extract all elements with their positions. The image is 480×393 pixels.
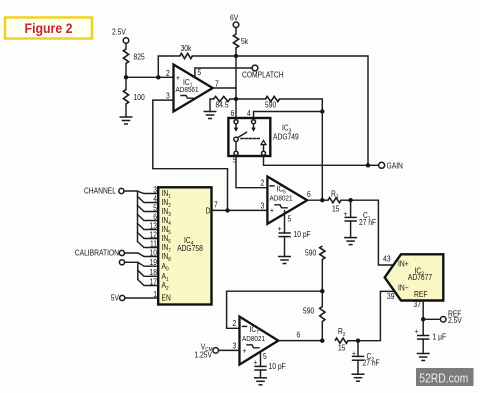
wire top rail to gain column xyxy=(236,56,368,165)
pin 5 latch stub to COMPLATCH xyxy=(195,68,252,77)
REF 2.5V terminal xyxy=(423,309,462,325)
wire R1 node to ADC IN+ xyxy=(351,200,394,265)
resistor 84.5 xyxy=(214,96,231,109)
svg-text:COMPLATCH: COMPLATCH xyxy=(242,70,284,80)
svg-text:30k: 30k xyxy=(181,43,192,53)
ground under C1 xyxy=(344,238,357,245)
COMPLATCH terminal xyxy=(242,65,284,80)
capacitor 1 uF xyxy=(414,319,446,353)
svg-text:+: + xyxy=(270,205,274,215)
wire R2 node to ADC IN- xyxy=(358,291,394,340)
svg-text:825: 825 xyxy=(134,52,145,62)
watermark xyxy=(416,368,474,386)
wire feedback to IC7 pin 2 xyxy=(227,291,323,328)
svg-text:5k: 5k xyxy=(241,36,248,46)
svg-text:3: 3 xyxy=(261,201,265,211)
wire D node to IC6 pin 3 xyxy=(228,209,268,211)
supply 2.5V terminal xyxy=(112,27,129,43)
svg-text:R2: R2 xyxy=(338,326,346,338)
svg-text:1 µF: 1 µF xyxy=(432,332,446,342)
resistor 30k xyxy=(180,43,193,58)
svg-text:1: 1 xyxy=(153,289,157,299)
svg-text:REF: REF xyxy=(414,290,428,300)
resistor 825 xyxy=(123,49,144,64)
svg-text:2.5V: 2.5V xyxy=(112,27,126,37)
wire 5V to EN xyxy=(125,297,158,299)
svg-text:+: + xyxy=(278,224,282,234)
svg-text:15: 15 xyxy=(332,204,339,214)
wire pull-up node down comparator output column xyxy=(235,56,237,99)
svg-text:5: 5 xyxy=(263,352,267,362)
svg-text:2: 2 xyxy=(233,319,237,329)
svg-text:17: 17 xyxy=(150,277,157,287)
svg-text:19: 19 xyxy=(150,257,157,267)
wire REF pin down xyxy=(422,301,424,320)
wire IC6 output xyxy=(307,199,322,201)
svg-text:IN−: IN− xyxy=(398,283,409,293)
svg-text:10 pF: 10 pF xyxy=(268,362,286,372)
node D junction xyxy=(225,208,229,212)
svg-text:AD8561: AD8561 xyxy=(176,86,199,94)
adc IC2 AD7677 xyxy=(385,254,444,300)
node pull-up junction xyxy=(234,54,238,58)
wire address fan to A0 A1 A2 xyxy=(125,262,159,285)
svg-text:5: 5 xyxy=(287,214,291,224)
ground under 84.5 xyxy=(204,112,217,119)
ground under IC6 10 pF xyxy=(278,257,291,264)
svg-text:+: + xyxy=(176,73,180,83)
svg-text:3: 3 xyxy=(233,341,237,351)
wire cap to ground xyxy=(284,237,286,257)
wire node up to 30k xyxy=(158,56,180,77)
GAIN terminal xyxy=(368,161,403,171)
node attenuator junction xyxy=(234,97,238,101)
svg-text:AD8021: AD8021 xyxy=(242,336,265,344)
resistor 590 middle xyxy=(305,246,325,260)
svg-text:2.5V: 2.5V xyxy=(448,315,462,325)
wire cap to ground xyxy=(260,370,262,378)
wire attenuator node down to switch pin 6 xyxy=(235,99,237,120)
svg-text:27 nF: 27 nF xyxy=(363,358,381,368)
wire node to R100 xyxy=(125,77,127,89)
wire junction to switch pin 4 xyxy=(254,112,323,120)
wire R100 to ground xyxy=(125,104,127,117)
svg-text:7: 7 xyxy=(215,79,219,89)
wire attenuator node to 84.5 xyxy=(230,98,236,100)
wire switch control pin to gain line xyxy=(264,155,369,165)
svg-text:43: 43 xyxy=(383,254,390,264)
wire IC6 pin 5 to cap xyxy=(284,211,286,233)
svg-text:D: D xyxy=(205,206,210,216)
svg-text:6: 6 xyxy=(230,108,234,118)
pin number labels left of IC4 xyxy=(150,185,157,299)
wire divider node to comparator pin 2 xyxy=(126,76,174,78)
wire D output to node xyxy=(212,209,228,211)
resistor R2 15 xyxy=(335,326,358,352)
wire 590 to switch column xyxy=(280,99,323,112)
svg-text:ADG758: ADG758 xyxy=(177,243,203,253)
CHANNEL terminal xyxy=(84,186,124,196)
resistor R1 15 xyxy=(322,189,350,214)
wire CALIBRATION to IN8 xyxy=(125,253,159,257)
svg-text:27 nF: 27 nF xyxy=(359,217,377,227)
mux IC4 ADG758 xyxy=(158,187,211,304)
svg-text:EN: EN xyxy=(161,293,170,303)
resistor 590 top xyxy=(265,96,279,109)
figure label box xyxy=(5,18,92,39)
op-amp IC1 AD8561 comparator xyxy=(174,65,213,112)
VCM terminal xyxy=(194,342,218,360)
ground under 1 uF xyxy=(417,354,430,361)
svg-text:52RD.com: 52RD.com xyxy=(419,371,468,385)
svg-text:39: 39 xyxy=(387,292,394,302)
wire comparator pin 3 feedback path xyxy=(153,100,228,210)
wire CHANNEL fan to IN pins xyxy=(124,191,158,248)
capacitor C2 27 nF xyxy=(352,341,380,375)
node feedback tap xyxy=(156,75,160,79)
svg-text:6: 6 xyxy=(297,330,301,340)
svg-text:100: 100 xyxy=(134,92,145,102)
wire attenuator node to 590 xyxy=(236,98,266,100)
resistor 590 bottom xyxy=(303,291,325,341)
svg-text:4: 4 xyxy=(247,108,251,118)
wire VCM to IC7 pin 3 xyxy=(219,349,240,351)
svg-text:CHANNEL: CHANNEL xyxy=(84,186,116,196)
node R2 output junction xyxy=(356,339,360,343)
svg-text:3: 3 xyxy=(166,91,170,101)
wire 30k to pull-up node xyxy=(192,55,236,57)
wire R825 to node xyxy=(125,64,127,78)
node gain junction xyxy=(366,163,370,167)
node IC7 output junction xyxy=(320,339,324,343)
wire switch junction down to IC6 output node xyxy=(321,112,323,201)
wire IC7 output xyxy=(278,340,322,342)
supply 5V terminal xyxy=(111,293,125,303)
svg-text:+: + xyxy=(414,326,418,336)
wire 84.5 to ground xyxy=(210,99,214,112)
op-amp IC7 AD8021 xyxy=(240,317,279,365)
svg-text:7: 7 xyxy=(214,200,218,210)
wire 6V to 5k xyxy=(235,28,237,34)
svg-text:6V: 6V xyxy=(230,13,238,23)
ground under R100 xyxy=(120,117,133,124)
op-amp IC6 AD8021 xyxy=(267,177,307,224)
pin 7 output wire xyxy=(213,87,236,89)
wire 5k to pull-up node xyxy=(235,48,237,56)
wire IC7 pin 5 to cap xyxy=(260,352,262,367)
svg-text:590: 590 xyxy=(303,306,314,316)
svg-text:CALIBRATION: CALIBRATION xyxy=(75,248,119,258)
capacitor 10 pF (IC7) xyxy=(254,357,287,371)
wire switch pin 5 down to IC6 pin 2 xyxy=(236,155,267,188)
svg-text:IN+: IN+ xyxy=(398,259,409,269)
svg-text:6: 6 xyxy=(307,190,311,200)
svg-text:+: + xyxy=(242,346,246,356)
address terminal xyxy=(119,260,124,265)
svg-text:Figure 2: Figure 2 xyxy=(25,20,73,36)
resistor 5k xyxy=(233,34,248,48)
svg-text:2: 2 xyxy=(166,68,170,78)
supply 6V terminal xyxy=(230,13,239,28)
capacitor C1 27 nF xyxy=(344,200,377,237)
svg-text:5: 5 xyxy=(198,67,202,77)
wire 2.5V to R825 xyxy=(125,43,127,49)
svg-text:590: 590 xyxy=(265,100,276,110)
CALIBRATION terminal xyxy=(75,248,125,258)
capacitor 10 pF (IC6) xyxy=(278,224,312,239)
node at 825/100 divider xyxy=(124,75,128,79)
resistor 100 xyxy=(123,90,144,105)
svg-text:15: 15 xyxy=(338,343,345,353)
svg-text:ADG749: ADG749 xyxy=(273,132,299,142)
svg-text:AD7677: AD7677 xyxy=(408,273,432,283)
ground under C2 xyxy=(352,374,365,381)
svg-text:1.25V: 1.25V xyxy=(194,350,212,360)
node R1 output junction xyxy=(348,198,352,202)
svg-text:2: 2 xyxy=(261,178,265,188)
wire 590 to feedback node xyxy=(321,260,323,292)
svg-text:GAIN: GAIN xyxy=(387,161,403,171)
svg-text:37: 37 xyxy=(413,300,420,310)
node IC6 output junction xyxy=(320,198,324,202)
node switch contact junction xyxy=(320,109,324,113)
svg-text:5V: 5V xyxy=(111,293,119,303)
ground under IC7 10 pF xyxy=(254,378,267,385)
svg-text:84.5: 84.5 xyxy=(216,100,229,110)
node IC7 feedback junction xyxy=(320,289,324,293)
svg-text:10: 10 xyxy=(150,248,157,258)
node REF junction xyxy=(421,317,425,321)
switch IC3 ADG749 xyxy=(228,118,298,156)
svg-text:AD8021: AD8021 xyxy=(269,195,292,203)
svg-text:10 pF: 10 pF xyxy=(293,229,311,239)
svg-text:590: 590 xyxy=(305,248,316,258)
